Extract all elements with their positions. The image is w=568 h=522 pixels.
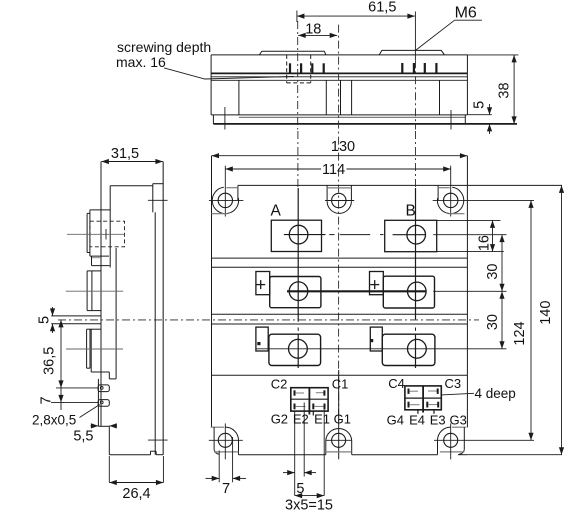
svg-text:114: 114	[322, 162, 345, 178]
svg-text:130: 130	[331, 139, 355, 155]
svg-text:C4: C4	[388, 376, 405, 391]
svg-text:C2: C2	[271, 377, 288, 392]
svg-text:36,5: 36,5	[42, 347, 58, 375]
svg-text:7: 7	[222, 481, 230, 497]
svg-text:30: 30	[485, 314, 501, 330]
svg-text:61,5: 61,5	[368, 0, 396, 16]
svg-text:16: 16	[476, 235, 492, 251]
svg-text:G1: G1	[334, 411, 351, 426]
svg-text:7: 7	[39, 396, 55, 404]
svg-text:E1: E1	[314, 411, 330, 426]
svg-text:30: 30	[485, 264, 501, 280]
svg-text:124: 124	[512, 321, 528, 345]
svg-text:31,5: 31,5	[111, 146, 139, 162]
svg-text:M6: M6	[455, 5, 477, 22]
svg-text:C1: C1	[332, 377, 349, 392]
svg-text:5,5: 5,5	[73, 429, 93, 445]
svg-text:5: 5	[37, 316, 53, 324]
svg-text:3x5=15: 3x5=15	[285, 497, 333, 513]
svg-text:2,8x0,5: 2,8x0,5	[32, 413, 76, 428]
svg-text:38: 38	[497, 82, 513, 98]
svg-text:G2: G2	[271, 411, 288, 426]
svg-text:G3: G3	[450, 412, 467, 427]
svg-text:26,4: 26,4	[122, 486, 150, 502]
svg-text:G4: G4	[387, 412, 404, 427]
svg-text:C3: C3	[445, 376, 462, 391]
svg-text:A: A	[271, 203, 282, 220]
svg-text:140: 140	[538, 301, 554, 325]
svg-text:4 deep: 4 deep	[475, 386, 516, 401]
svg-text:5: 5	[472, 101, 488, 109]
svg-text:max. 16: max. 16	[116, 54, 166, 70]
svg-text:screwing depth: screwing depth	[117, 39, 211, 55]
svg-text:E3: E3	[430, 412, 446, 427]
svg-text:18: 18	[305, 21, 321, 37]
svg-text:B: B	[406, 203, 416, 220]
svg-text:E4: E4	[409, 412, 425, 427]
svg-text:E2: E2	[293, 411, 309, 426]
